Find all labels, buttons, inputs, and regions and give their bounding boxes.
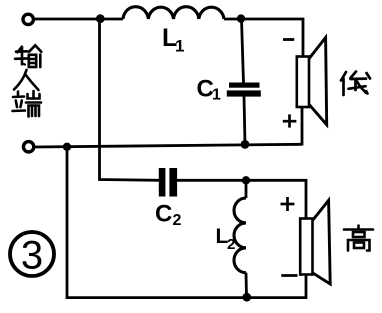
svg-text:2: 2 xyxy=(173,212,182,229)
svg-text:3: 3 xyxy=(21,234,43,278)
svg-text:1: 1 xyxy=(175,37,184,56)
svg-text:2: 2 xyxy=(227,236,235,253)
svg-text:C: C xyxy=(155,201,172,228)
svg-text:1: 1 xyxy=(212,87,221,104)
